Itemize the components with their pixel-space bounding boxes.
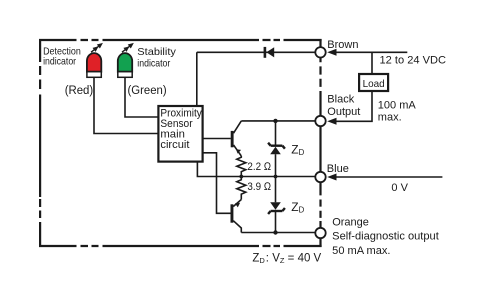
wire: internal supply line from Brown terminal to main circuit [197,52,315,106]
external 0V wire with arrow to Blue [336,176,443,178]
stability indicator LED (green) [118,53,132,72]
sensor outline right edge [319,39,321,247]
proximity sensor main circuit box [158,106,202,162]
sensor outline top edge [39,39,322,41]
svg-text:(Green): (Green) [128,85,167,97]
wire: Q1 collector to Black terminal [241,120,315,122]
load branch wire [336,52,372,121]
svg-text:max.: max. [378,112,402,124]
svg-text:100 mA: 100 mA [378,100,417,112]
red LED wire to main circuit [94,77,158,133]
junction dot ZD / 0V [274,175,278,179]
svg-text:12 to 24 VDC: 12 to 24 VDC [380,55,447,67]
junction dot ZD2 / Orange wire [273,230,277,234]
terminal Black [315,116,325,126]
svg-text:0 V: 0 V [391,182,408,194]
svg-text:(Red): (Red) [65,85,94,97]
transistor Q1 [231,131,234,147]
sensor outline left edge [39,39,41,247]
resistor R2 3.9 ohm [237,177,246,200]
svg-text:indicator: indicator [43,56,76,67]
svg-text:Blue: Blue [327,163,349,175]
zener diode ZD1 (top) [275,121,277,145]
svg-text:Orange: Orange [332,216,369,228]
svg-text:Self-diagnostic output: Self-diagnostic output [332,230,439,242]
svg-text:Brown: Brown [327,39,358,51]
svg-text:2.2 Ω: 2.2 Ω [247,161,271,173]
wire: main circuit to Q1 base [203,138,231,140]
sensor outline bottom edge [39,245,322,247]
terminal Blue [315,172,325,182]
svg-text:circuit: circuit [160,139,189,151]
junction dot resistors / 0V [239,175,243,179]
svg-text:Output: Output [327,106,360,118]
wire: Q2 collector to Orange terminal [241,232,315,234]
svg-text:Stability: Stability [137,47,177,58]
red LED emission arrows [90,44,101,54]
junction dot on Black wire [273,119,277,123]
svg-text:Load: Load [363,78,385,90]
terminal Brown [315,47,325,57]
load box [359,74,388,91]
wire: main circuit to 0V line [197,162,315,177]
svg-text:Black: Black [327,94,354,106]
transistor Q2 [231,204,234,222]
green LED emission arrows [120,44,131,54]
svg-text:indicator: indicator [137,58,170,69]
detection indicator LED (red) [87,53,101,72]
wire: main circuit to Q2 base [203,153,231,214]
svg-text:3.9 Ω: 3.9 Ω [247,181,271,193]
external supply wire 12-24VDC with arrow to Brown [336,51,408,53]
svg-text:50 mA max.: 50 mA max. [332,245,390,257]
zener diode ZD2 (bottom) [275,177,277,203]
diode D1 [264,47,275,58]
terminal Orange [315,228,325,238]
resistor R1 2.2 ohm [237,156,246,177]
green LED wire to main circuit [125,77,158,117]
